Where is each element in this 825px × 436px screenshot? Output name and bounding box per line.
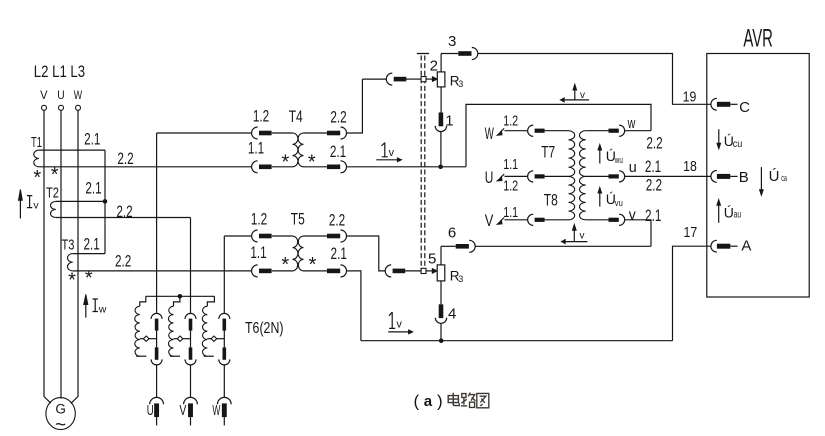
caption glyph tu [477,393,489,407]
wire T1 terminal 2.1 [39,149,105,151]
wire T4 1.2 [157,132,252,134]
svg-text:1.1: 1.1 [503,204,518,221]
T6 winding 3 center tap [207,338,211,340]
svg-text:19: 19 [683,89,697,105]
wiper arrow node 5 [426,270,433,272]
svg-text:T3: T3 [62,237,75,254]
caption glyph dian [448,393,459,406]
svg-text:*: * [309,254,317,276]
transformer T8 primary winding [569,176,575,219]
label Iw [93,299,98,312]
wire T2 terminal 2.1 [56,200,105,202]
wire T5 1.2 feeder vertical [223,236,225,314]
svg-text:3: 3 [458,274,463,284]
voltage arrow Uwu [599,149,601,164]
marker U terminal [500,174,504,178]
wire T5 2.1 drop to bottom rail [347,271,361,341]
transformer T7 primary winding [569,131,575,177]
svg-text:V: V [40,88,47,102]
svg-text:T8: T8 [544,192,558,210]
transformer T2 secondary coil [50,201,55,217]
wiper arrow node 2 [426,78,433,80]
svg-text:~: ~ [55,415,66,436]
svg-text:): ) [437,392,443,411]
wire phase W vertical [71,110,78,403]
svg-text:cu: cu [733,139,743,150]
svg-text:u: u [629,159,637,176]
svg-text:3: 3 [458,79,463,89]
transformer T6 winding 3 [207,296,214,306]
wire below fuse U [156,417,158,425]
wire T2 terminal 2.2 [56,217,191,219]
fuse T4 1.2 [252,127,258,139]
wire T6 unit 1 lower [156,365,158,398]
wire below fuse W [223,417,225,425]
voltage arrow Ucu [718,129,720,144]
wire fuse 4 to bottom rail [440,324,442,341]
excitation fuse U [150,397,164,404]
svg-text:T5: T5 [291,211,305,229]
svg-text:2.1: 2.1 [83,236,99,254]
svg-text:1.1: 1.1 [248,140,264,158]
wire R3 to fuse 1 [440,87,442,113]
marker V terminal [500,218,504,222]
fuse node 2 [386,73,392,85]
svg-text:2.1: 2.1 [645,158,661,176]
svg-text:wu: wu [614,155,623,165]
wire u 2.1 lead [586,175,609,177]
node 5 line [385,265,391,277]
svg-text:v: v [580,231,585,242]
wire w to riser [625,130,651,132]
wire junction to T7 feeder riser [466,104,651,166]
svg-text:(: ( [414,392,420,411]
wire below fuse V [190,417,192,425]
current arrow Iv top of T7 [574,89,576,100]
caption glyph lu [461,394,467,406]
resistor R3 lower [437,265,445,281]
svg-text:a: a [424,393,433,410]
label Iv left [27,196,32,208]
svg-text:1.1: 1.1 [250,244,266,262]
transformer T6 winding 2 [174,296,180,306]
fuse node 4 [439,304,444,318]
svg-text:A: A [741,238,751,255]
voltage arrow Uvu [599,192,601,207]
wire T3 terminal 2.1 [73,253,105,255]
wire T3 terminal 2.2 to T5 1.1 [73,270,252,272]
terminal strip dashed line left [420,56,422,276]
svg-text:T2: T2 [46,184,59,201]
wire node 6 to v2.1 [475,245,651,247]
svg-text:W: W [485,125,494,143]
transformer T1 secondary coil [34,150,39,167]
svg-text:3: 3 [448,33,456,50]
svg-text:v: v [629,207,636,224]
wire T5 1.2 [224,235,251,237]
svg-text:L2 L1 L3: L2 L1 L3 [34,63,85,81]
svg-text:ca: ca [781,173,787,184]
transformer T7 secondary winding [580,131,586,177]
strip pin node 2 [421,77,426,82]
fuse T7T8 2.1 2.2 [609,174,619,178]
transformer T3 secondary coil [67,254,72,271]
transformer T6 winding 1 [140,296,146,306]
wire T4 2.1 to node 1 junction [347,166,466,168]
svg-text:W: W [212,402,220,419]
T6 fuse bottom unit 2 [189,347,193,359]
wire T4 1.2 feeder vertical [156,133,158,314]
svg-text:T1: T1 [31,134,42,151]
fuse T5 1.2 [252,230,258,242]
fuse T8 1.1 [528,214,534,225]
wire U lead [505,175,528,177]
svg-text:*: * [308,152,316,174]
svg-text:1: 1 [445,113,453,130]
current label Iv at bottom rail [389,312,395,328]
svg-text:v: v [396,319,402,331]
AVR pin A [711,240,717,252]
svg-text:2.1: 2.1 [84,131,100,149]
svg-text:U: U [147,402,154,419]
wire T5 2.2 riser to node 5 [347,236,386,271]
fuse T5 1.1 [252,265,258,277]
wire T2 2.2 feeder vertical [190,218,192,314]
wire T5 2.2 [304,235,328,237]
wire T6 unit 3 mid [223,331,225,348]
svg-text:*: * [281,254,289,276]
svg-text:*: * [85,268,93,290]
fuse node 6 [456,244,469,249]
strip pin node 5 [421,268,426,273]
wire T6 unit 2 mid [190,331,192,348]
wire T5 2.1 [304,270,328,272]
wire v 2.1 lead [586,219,609,221]
svg-text:*: * [68,270,76,292]
AVR pin C [711,98,717,110]
wire fuse 1 to junction [440,132,442,167]
svg-text:v: v [580,90,585,101]
svg-text:W: W [74,88,83,102]
svg-text:1.1: 1.1 [503,156,518,173]
generator G [46,398,75,430]
svg-text:v: v [389,147,395,159]
svg-text:*: * [51,164,59,186]
svg-text:U: U [57,88,64,102]
T6 fuse top unit 3 [219,313,230,319]
wire R3 lower to fuse 4 [440,281,442,304]
wire node 6 riser [440,246,442,265]
svg-text:2.2: 2.2 [330,108,346,126]
fuse T4 2.2 [327,131,340,136]
T6 fuse top unit 2 [185,313,196,319]
current arrow Iv bottom of T8 [573,229,575,242]
svg-text:2.2: 2.2 [646,177,662,195]
wire w 2.2 lead [586,130,609,132]
transformer T8 secondary winding [579,176,585,219]
svg-text:B: B [739,169,749,186]
wire v drop to node 6 line [625,220,651,247]
current label Iv at T4 2.1 [382,143,388,157]
excitation fuse V [184,397,198,404]
svg-text:1.2: 1.2 [253,107,269,125]
fuse T7 1.2 [528,125,534,136]
fuse node 3 [458,51,471,56]
wire u to AVR B [625,175,711,177]
svg-text:U: U [485,169,494,187]
bottom rail wire [361,340,673,342]
svg-text:2.2: 2.2 [646,135,662,153]
svg-text:Ú: Ú [769,168,780,185]
voltage arrow Uau [718,204,720,223]
svg-text:w: w [627,115,636,132]
wire V lead [505,219,528,221]
svg-text:2.2: 2.2 [329,212,345,230]
svg-text:AVR: AVR [743,25,773,53]
svg-text:4: 4 [448,306,456,323]
AVR box [707,54,809,298]
svg-text:1.2: 1.2 [503,112,518,129]
excitation fuse W [217,397,231,404]
svg-text:vu: vu [615,198,623,208]
wire T4 2.2 [304,132,328,134]
svg-text:T6(2N): T6(2N) [245,320,284,337]
current arrow Iw [85,296,87,318]
terminal strip cap [417,53,429,55]
wire phase V vertical [44,110,51,403]
svg-text:T7: T7 [541,143,555,161]
svg-text:6: 6 [448,224,456,241]
wire T6 unit 1 mid [156,331,158,348]
fuse T5 2.2 [327,234,340,239]
svg-text:au: au [734,209,742,220]
svg-text:2.1: 2.1 [330,143,346,161]
wire CT common vertical [104,150,106,254]
fuse T7T8 1.1 1.2 [528,171,534,182]
wire W 1.2 lead [505,130,528,132]
fuse T5 2.1 [327,269,340,274]
node 6 line [441,245,456,247]
svg-text:w: w [98,303,107,315]
svg-text:2.2: 2.2 [117,150,133,168]
wire T4 2.2 riser to node 2 [347,79,363,133]
node 2 line [362,78,386,80]
fuse T4 1.1 [252,161,258,173]
svg-text:*: * [33,167,41,189]
resistor R3 upper [437,72,445,87]
T6 winding 2 center tap [174,338,178,340]
T6 winding 1 center tap [140,338,144,340]
transformer T4 primary winding [293,133,298,167]
wire T1 terminal 2.2 to T4 1.1 [39,166,252,168]
AVR pin B [711,171,717,183]
T6 fuse bottom unit 3 [223,347,227,359]
svg-text:2.2: 2.2 [116,203,132,221]
junction dot T2 2.1 common [103,199,108,204]
junction dot node 1 [438,165,443,170]
fuse T7 2.2 [609,129,619,133]
marker W terminal [500,128,504,132]
svg-text:17: 17 [684,225,698,241]
wire T6 common bus [146,295,215,297]
fuse T8 2.1 [609,218,619,222]
svg-text:V: V [485,212,494,230]
T6 fuse bottom unit 1 [155,347,159,359]
svg-text:T4: T4 [289,108,303,126]
svg-text:2.1: 2.1 [645,207,661,225]
wire phase U vertical [60,110,62,398]
wire T4 2.1 [304,166,328,168]
voltage arrow Uca [760,167,762,190]
wire node 3 to AVR C [478,54,711,105]
svg-text:Ú: Ú [724,205,734,221]
wire T6 unit 3 lower [223,365,225,398]
svg-text:2.1: 2.1 [85,180,101,198]
wire node 3 riser [440,54,442,72]
svg-text:1.2: 1.2 [503,177,518,194]
transformer T4 secondary winding [298,133,303,167]
transformer T5 primary winding [293,236,298,271]
fuse node 1 [439,113,444,127]
svg-text:C: C [739,99,750,116]
terminal strip dashed line right [424,56,426,276]
node 3 line [441,53,458,55]
svg-text:2.2: 2.2 [115,253,131,271]
junction dot node 4 bottom rail [439,338,444,343]
junction dot T6 bus [178,294,183,299]
wire bottom rail to AVR A [673,246,711,341]
wire T6 unit 2 lower [190,365,192,398]
svg-text:v: v [33,199,39,211]
svg-text:*: * [282,152,290,174]
svg-text:2.1: 2.1 [331,245,347,263]
current arrow Iv left [19,196,21,219]
T6 fuse top unit 1 [151,313,162,319]
svg-text:5: 5 [428,251,436,268]
svg-text:1.2: 1.2 [251,211,267,229]
fuse T4 2.1 [327,165,340,170]
svg-text:18: 18 [683,159,697,175]
transformer T5 secondary winding [298,236,303,271]
svg-text:V: V [179,402,186,419]
